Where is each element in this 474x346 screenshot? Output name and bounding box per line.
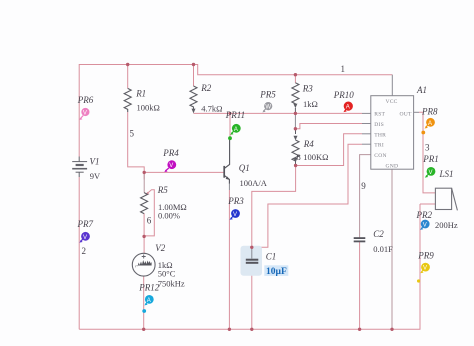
svg-text:200Hz: 200Hz <box>435 220 458 230</box>
svg-text:A: A <box>234 127 238 133</box>
noise source V2 <box>132 253 155 276</box>
probe PR3 <box>227 196 244 220</box>
probe PR10 <box>333 90 354 112</box>
svg-text:9V: 9V <box>90 171 101 181</box>
svg-text:A1: A1 <box>416 85 427 95</box>
wire V2 top <box>143 172 145 192</box>
wire THR to R4 <box>296 134 362 166</box>
wire left rail upper <box>78 64 80 157</box>
probe PR7 <box>77 219 94 256</box>
wire R4 to C1 <box>252 166 296 248</box>
svg-text:3: 3 <box>425 143 430 153</box>
svg-text:PR5: PR5 <box>259 89 276 99</box>
svg-text:PR2: PR2 <box>416 210 433 220</box>
svg-text:A: A <box>346 105 350 111</box>
wire R3R4 gray link <box>294 113 296 128</box>
battery V1 <box>72 157 87 178</box>
svg-text:CON: CON <box>374 153 386 159</box>
svg-text:1kΩ: 1kΩ <box>303 99 318 109</box>
wire CON to C2 <box>360 155 371 238</box>
svg-text:R4: R4 <box>303 139 314 149</box>
wire bottom rail <box>79 204 420 329</box>
capacitor C1 highlight <box>241 246 263 276</box>
probe PR2 <box>416 210 433 230</box>
svg-text:PR7: PR7 <box>77 219 94 229</box>
svg-text:C2: C2 <box>373 229 384 239</box>
svg-text:PR3: PR3 <box>227 196 244 206</box>
probe PR1 <box>422 154 439 178</box>
svg-text:PR1: PR1 <box>422 154 439 164</box>
svg-text:TRI: TRI <box>374 143 384 149</box>
svg-text:8: 8 <box>297 152 301 162</box>
svg-text:10µF: 10µF <box>266 267 287 277</box>
svg-text:V: V <box>423 266 427 272</box>
555 timer A1 <box>371 96 414 170</box>
svg-text:750kHz: 750kHz <box>158 278 185 288</box>
svg-text:DIS: DIS <box>374 122 384 128</box>
capacitor C2 <box>354 237 366 239</box>
speaker LS1 <box>435 188 451 209</box>
svg-text:5: 5 <box>130 129 135 139</box>
svg-text:V: V <box>83 235 87 241</box>
svg-text:GND: GND <box>386 163 399 169</box>
wire top rail <box>79 64 193 66</box>
resistor R1 <box>127 65 129 89</box>
capacitor C1 <box>251 247 253 258</box>
svg-text:4.7kΩ: 4.7kΩ <box>201 104 222 114</box>
wire R5 bracket wiper <box>145 190 155 236</box>
svg-text:1: 1 <box>341 64 346 74</box>
wire GND pin down <box>391 169 393 329</box>
svg-text:100KΩ: 100KΩ <box>303 152 328 162</box>
svg-text:R5: R5 <box>157 185 168 195</box>
svg-text:C1: C1 <box>266 252 277 262</box>
wire C1 bottom <box>251 263 253 329</box>
svg-text:LS1: LS1 <box>439 169 454 179</box>
svg-text:9: 9 <box>361 181 366 191</box>
svg-text:100kΩ: 100kΩ <box>137 103 160 113</box>
svg-text:V2: V2 <box>155 243 165 253</box>
svg-text:V1: V1 <box>90 157 100 167</box>
svg-text:R1: R1 <box>135 89 146 99</box>
wire R1 bottom jog <box>128 112 145 180</box>
svg-text:V: V <box>169 163 173 169</box>
svg-text:PR6: PR6 <box>77 95 94 105</box>
potentiometer R5 <box>141 193 148 214</box>
wire left rail lower <box>78 177 80 329</box>
svg-text:0.00%: 0.00% <box>158 211 180 221</box>
wire emitter down <box>228 190 230 329</box>
svg-text:OUT: OUT <box>400 112 412 118</box>
probe PR5 <box>259 89 276 112</box>
svg-text:V: V <box>233 212 237 218</box>
probe PR12 <box>138 282 159 313</box>
wire THR gray stub <box>362 133 371 135</box>
svg-text:V: V <box>423 223 427 229</box>
svg-text:A: A <box>428 121 432 127</box>
wire speaker bottom terminal <box>420 203 435 205</box>
probe PR4 <box>162 148 179 172</box>
transistor Q1 <box>223 166 225 178</box>
svg-text:PR11: PR11 <box>225 110 245 120</box>
svg-text:V: V <box>83 111 87 117</box>
probe PR9 <box>417 250 434 282</box>
resistor R2 <box>193 65 195 87</box>
wire collector drop <box>229 113 231 140</box>
svg-text:2: 2 <box>82 246 87 256</box>
svg-text:R2: R2 <box>200 83 211 93</box>
wire C2 bottom <box>359 242 361 330</box>
resistor R4 <box>295 129 297 134</box>
wire base <box>144 171 224 173</box>
probe PR6 <box>77 95 94 120</box>
probe PR11 <box>225 110 245 140</box>
svg-text:A: A <box>147 298 151 304</box>
wire DIS jog <box>295 124 362 129</box>
svg-text:PR12: PR12 <box>138 282 159 292</box>
svg-text:0.01F: 0.01F <box>373 244 393 254</box>
probe PR8 <box>421 106 438 134</box>
wire top step to VCC <box>194 65 393 75</box>
wire RST line <box>194 112 363 114</box>
wire TRI to C1 <box>252 144 362 247</box>
svg-text:PR8: PR8 <box>421 106 438 116</box>
svg-text:PR10: PR10 <box>333 90 354 100</box>
wire R5 to V2 <box>143 213 145 253</box>
svg-text:50°C: 50°C <box>158 269 176 279</box>
svg-text:Q1: Q1 <box>239 163 250 173</box>
wire OUT <box>419 112 435 193</box>
svg-text:V: V <box>429 170 433 176</box>
svg-text:PR9: PR9 <box>417 250 434 260</box>
wire V2 bottom <box>143 276 145 329</box>
svg-text:RST: RST <box>374 112 385 118</box>
svg-text:100A/A: 100A/A <box>240 178 268 188</box>
svg-text:PR4: PR4 <box>162 148 179 158</box>
svg-text:VCC: VCC <box>386 99 398 105</box>
svg-text:THR: THR <box>374 132 386 138</box>
svg-text:W: W <box>265 105 271 111</box>
wire TRI gray stub <box>362 143 371 145</box>
svg-text:R3: R3 <box>302 84 313 94</box>
svg-text:6: 6 <box>147 216 152 226</box>
resistor R3 <box>294 75 296 83</box>
